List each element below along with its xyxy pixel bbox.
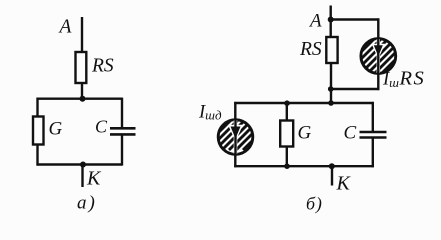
noise source I_shd (right) xyxy=(201,100,293,155)
svg-text:A: A xyxy=(308,11,322,32)
wire RS to top node (left) xyxy=(81,83,83,99)
wire G branch lower (right) xyxy=(286,147,288,167)
wire right branch lower (right) xyxy=(372,138,374,168)
wire top stub (right) xyxy=(330,6,332,39)
svg-text:K: K xyxy=(86,167,102,189)
junction dot rejoin (right) xyxy=(328,86,334,92)
junction dot G bottom (right) xyxy=(284,163,290,169)
svg-text:Iшд: Iшд xyxy=(198,102,222,122)
svg-text:C: C xyxy=(95,117,108,137)
wire noise branch lower (right) xyxy=(377,72,379,90)
svg-text:A: A xyxy=(58,17,72,38)
wire noise branch upper (right) xyxy=(377,18,379,40)
noise source I_sh_RS (right) xyxy=(327,26,429,86)
wire G branch upper (right) xyxy=(286,103,288,122)
junction dot at A (right) xyxy=(328,17,334,23)
resistor G (left) xyxy=(33,117,44,145)
svg-text:б): б) xyxy=(306,194,323,215)
svg-text:RS: RS xyxy=(299,39,322,60)
wire left branch upper (right) xyxy=(234,102,236,121)
svg-text:RS: RS xyxy=(91,56,114,77)
junction dot G top (right) xyxy=(284,100,290,106)
wire top of loop (right) xyxy=(234,102,374,104)
wire from A to resistor RS (left) xyxy=(81,17,83,53)
svg-text:а): а) xyxy=(77,193,97,214)
resistor G (right) xyxy=(280,121,293,147)
wire bottom of loop (right) xyxy=(234,165,374,167)
wire right branch lower (left) xyxy=(121,134,123,165)
wire top of loop (left) xyxy=(37,97,123,99)
wire right branch upper (right) xyxy=(372,102,374,132)
resistor RS (left) xyxy=(76,52,87,83)
wire right branch upper (left) xyxy=(121,98,123,128)
wire A to noise branch top (right) xyxy=(331,18,380,20)
svg-text:G: G xyxy=(298,123,312,144)
wire to node K (left) xyxy=(81,165,83,188)
wire noise branch rejoin (right) xyxy=(331,88,380,90)
resistor RS (right) xyxy=(326,37,337,63)
junction dot top (left) xyxy=(80,96,86,102)
junction dot main top of loop (right) xyxy=(328,100,334,106)
svg-text:IшRS: IшRS xyxy=(382,67,425,90)
svg-text:K: K xyxy=(336,173,352,195)
wire left branch upper (left) xyxy=(36,98,38,118)
wire left branch lower (left) xyxy=(36,145,38,166)
wire RS to junction (right) xyxy=(330,63,332,104)
junction dot bottom (left) xyxy=(80,162,86,168)
wire left branch lower (right) xyxy=(234,153,236,167)
wire to node K (right) xyxy=(331,166,333,185)
capacitor C (left) xyxy=(110,128,136,134)
junction dot at K (right) xyxy=(329,163,335,169)
svg-text:C: C xyxy=(344,123,357,144)
svg-text:G: G xyxy=(49,119,63,140)
capacitor C (right) xyxy=(360,132,387,138)
wire bottom of loop (left) xyxy=(37,163,123,165)
